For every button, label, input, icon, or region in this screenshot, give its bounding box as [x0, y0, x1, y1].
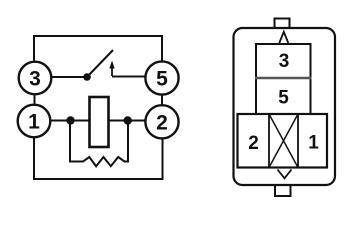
svg-text:1: 1 [28, 111, 40, 134]
connector orientation arrow down [278, 170, 292, 179]
svg-text:5: 5 [156, 68, 168, 91]
connector tab top [275, 19, 290, 29]
wire top rail [34, 36, 162, 61]
switch blade [87, 50, 113, 77]
wire terminal 5 to terminal 2 [161, 96, 163, 106]
wire terminal 3 to switch pivot [51, 76, 87, 78]
wire terminal 1 to coil [51, 120, 90, 122]
svg-text:3: 3 [279, 51, 290, 72]
connector orientation arrow up [279, 32, 288, 43]
wire bottom rail [34, 138, 163, 180]
terminal circle 5 [145, 61, 178, 94]
pin row outline [238, 114, 328, 168]
terminal circle 1 [18, 105, 51, 138]
switch arrow [109, 61, 114, 77]
pin box 3 [256, 44, 311, 78]
keyway box with X [269, 114, 298, 168]
connector outline [234, 28, 336, 185]
switch pivot dot [83, 73, 91, 81]
svg-text:2: 2 [156, 111, 168, 134]
wire switch to terminal 5 [112, 76, 146, 78]
resistor (parallel with coil) [70, 123, 128, 166]
junction dot right [124, 116, 132, 124]
wire coil to terminal 2 [109, 120, 147, 122]
connector tab bottom [275, 185, 291, 197]
wire terminal 3 to terminal 1 [34, 95, 36, 105]
pin box 5 [256, 78, 311, 114]
svg-text:5: 5 [278, 88, 289, 109]
terminal circle 2 [145, 105, 178, 138]
junction dot left [66, 116, 74, 124]
svg-text:2: 2 [248, 133, 259, 154]
terminal circle 3 [19, 62, 52, 95]
svg-text:1: 1 [308, 133, 319, 154]
divider between pin 3 and pin 5 [255, 77, 312, 80]
relay coil [90, 97, 109, 147]
svg-text:3: 3 [29, 68, 41, 91]
